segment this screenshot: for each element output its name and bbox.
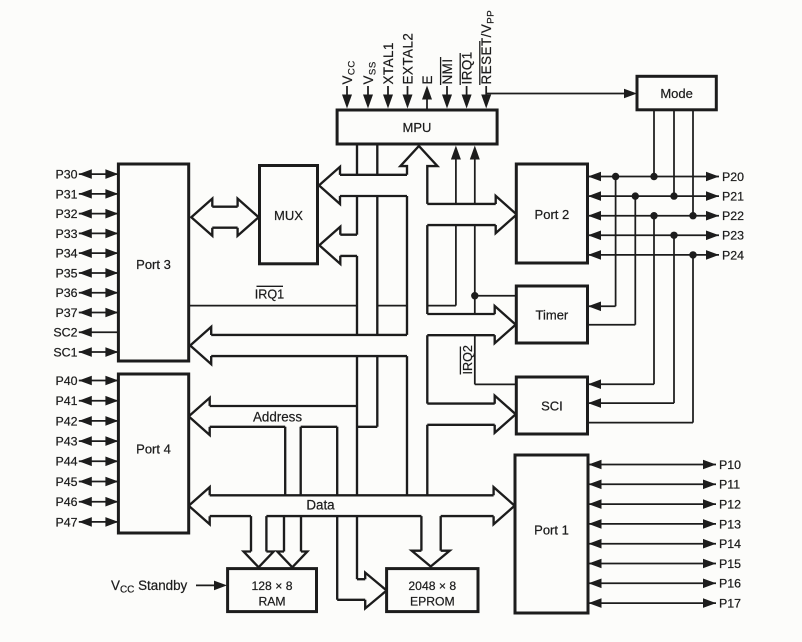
svg-text:P30: P30 — [55, 168, 77, 182]
svg-text:Port 2: Port 2 — [535, 207, 570, 222]
svg-text:Data: Data — [306, 498, 335, 513]
svg-text:P11: P11 — [719, 478, 740, 492]
svg-text:Timer: Timer — [536, 308, 569, 323]
svg-text:P36: P36 — [55, 286, 77, 300]
svg-text:P12: P12 — [719, 498, 741, 512]
svg-text:MPU: MPU — [403, 120, 432, 135]
svg-text:Port 1: Port 1 — [534, 523, 569, 538]
svg-text:EPROM: EPROM — [410, 595, 455, 609]
svg-text:2048 × 8: 2048 × 8 — [408, 579, 456, 593]
svg-text:P20: P20 — [722, 170, 744, 184]
svg-text:IRQ1: IRQ1 — [255, 288, 284, 302]
svg-text:P17: P17 — [719, 597, 741, 611]
svg-text:SC2: SC2 — [53, 326, 77, 340]
svg-text:RAM: RAM — [258, 595, 285, 609]
svg-text:P23: P23 — [722, 229, 744, 243]
svg-text:P22: P22 — [722, 209, 744, 223]
svg-text:Port 4: Port 4 — [136, 442, 171, 457]
svg-text:Mode: Mode — [660, 86, 693, 101]
svg-text:IRQ1: IRQ1 — [459, 51, 474, 84]
svg-text:P37: P37 — [55, 306, 77, 320]
svg-text:NMI: NMI — [440, 58, 455, 84]
svg-text:P45: P45 — [55, 475, 77, 489]
svg-text:Port 3: Port 3 — [136, 257, 171, 272]
svg-text:IRQ2: IRQ2 — [461, 345, 475, 374]
svg-text:E: E — [420, 75, 435, 84]
svg-text:SC1: SC1 — [53, 345, 77, 359]
svg-text:P33: P33 — [55, 227, 77, 241]
svg-text:128 × 8: 128 × 8 — [251, 579, 292, 593]
svg-text:P16: P16 — [719, 577, 741, 591]
svg-text:P21: P21 — [722, 190, 744, 204]
svg-text:Address: Address — [253, 409, 302, 424]
svg-text:P13: P13 — [719, 517, 741, 531]
svg-text:MUX: MUX — [274, 208, 303, 223]
svg-text:P46: P46 — [55, 495, 77, 509]
svg-text:P34: P34 — [55, 247, 77, 261]
svg-text:P44: P44 — [55, 455, 77, 469]
svg-text:EXTAL2: EXTAL2 — [400, 33, 415, 85]
svg-text:P41: P41 — [55, 394, 77, 408]
svg-text:P24: P24 — [722, 248, 744, 262]
svg-text:SCI: SCI — [541, 399, 563, 414]
svg-text:P40: P40 — [55, 374, 77, 388]
svg-text:P43: P43 — [55, 435, 77, 449]
svg-text:P42: P42 — [55, 414, 77, 428]
svg-text:P32: P32 — [55, 207, 77, 221]
svg-text:P35: P35 — [55, 266, 77, 280]
svg-text:P47: P47 — [55, 515, 77, 529]
svg-text:P14: P14 — [719, 537, 741, 551]
svg-text:P31: P31 — [55, 187, 77, 201]
svg-text:P10: P10 — [719, 458, 741, 472]
svg-text:P15: P15 — [719, 557, 741, 571]
svg-text:XTAL1: XTAL1 — [381, 42, 396, 84]
